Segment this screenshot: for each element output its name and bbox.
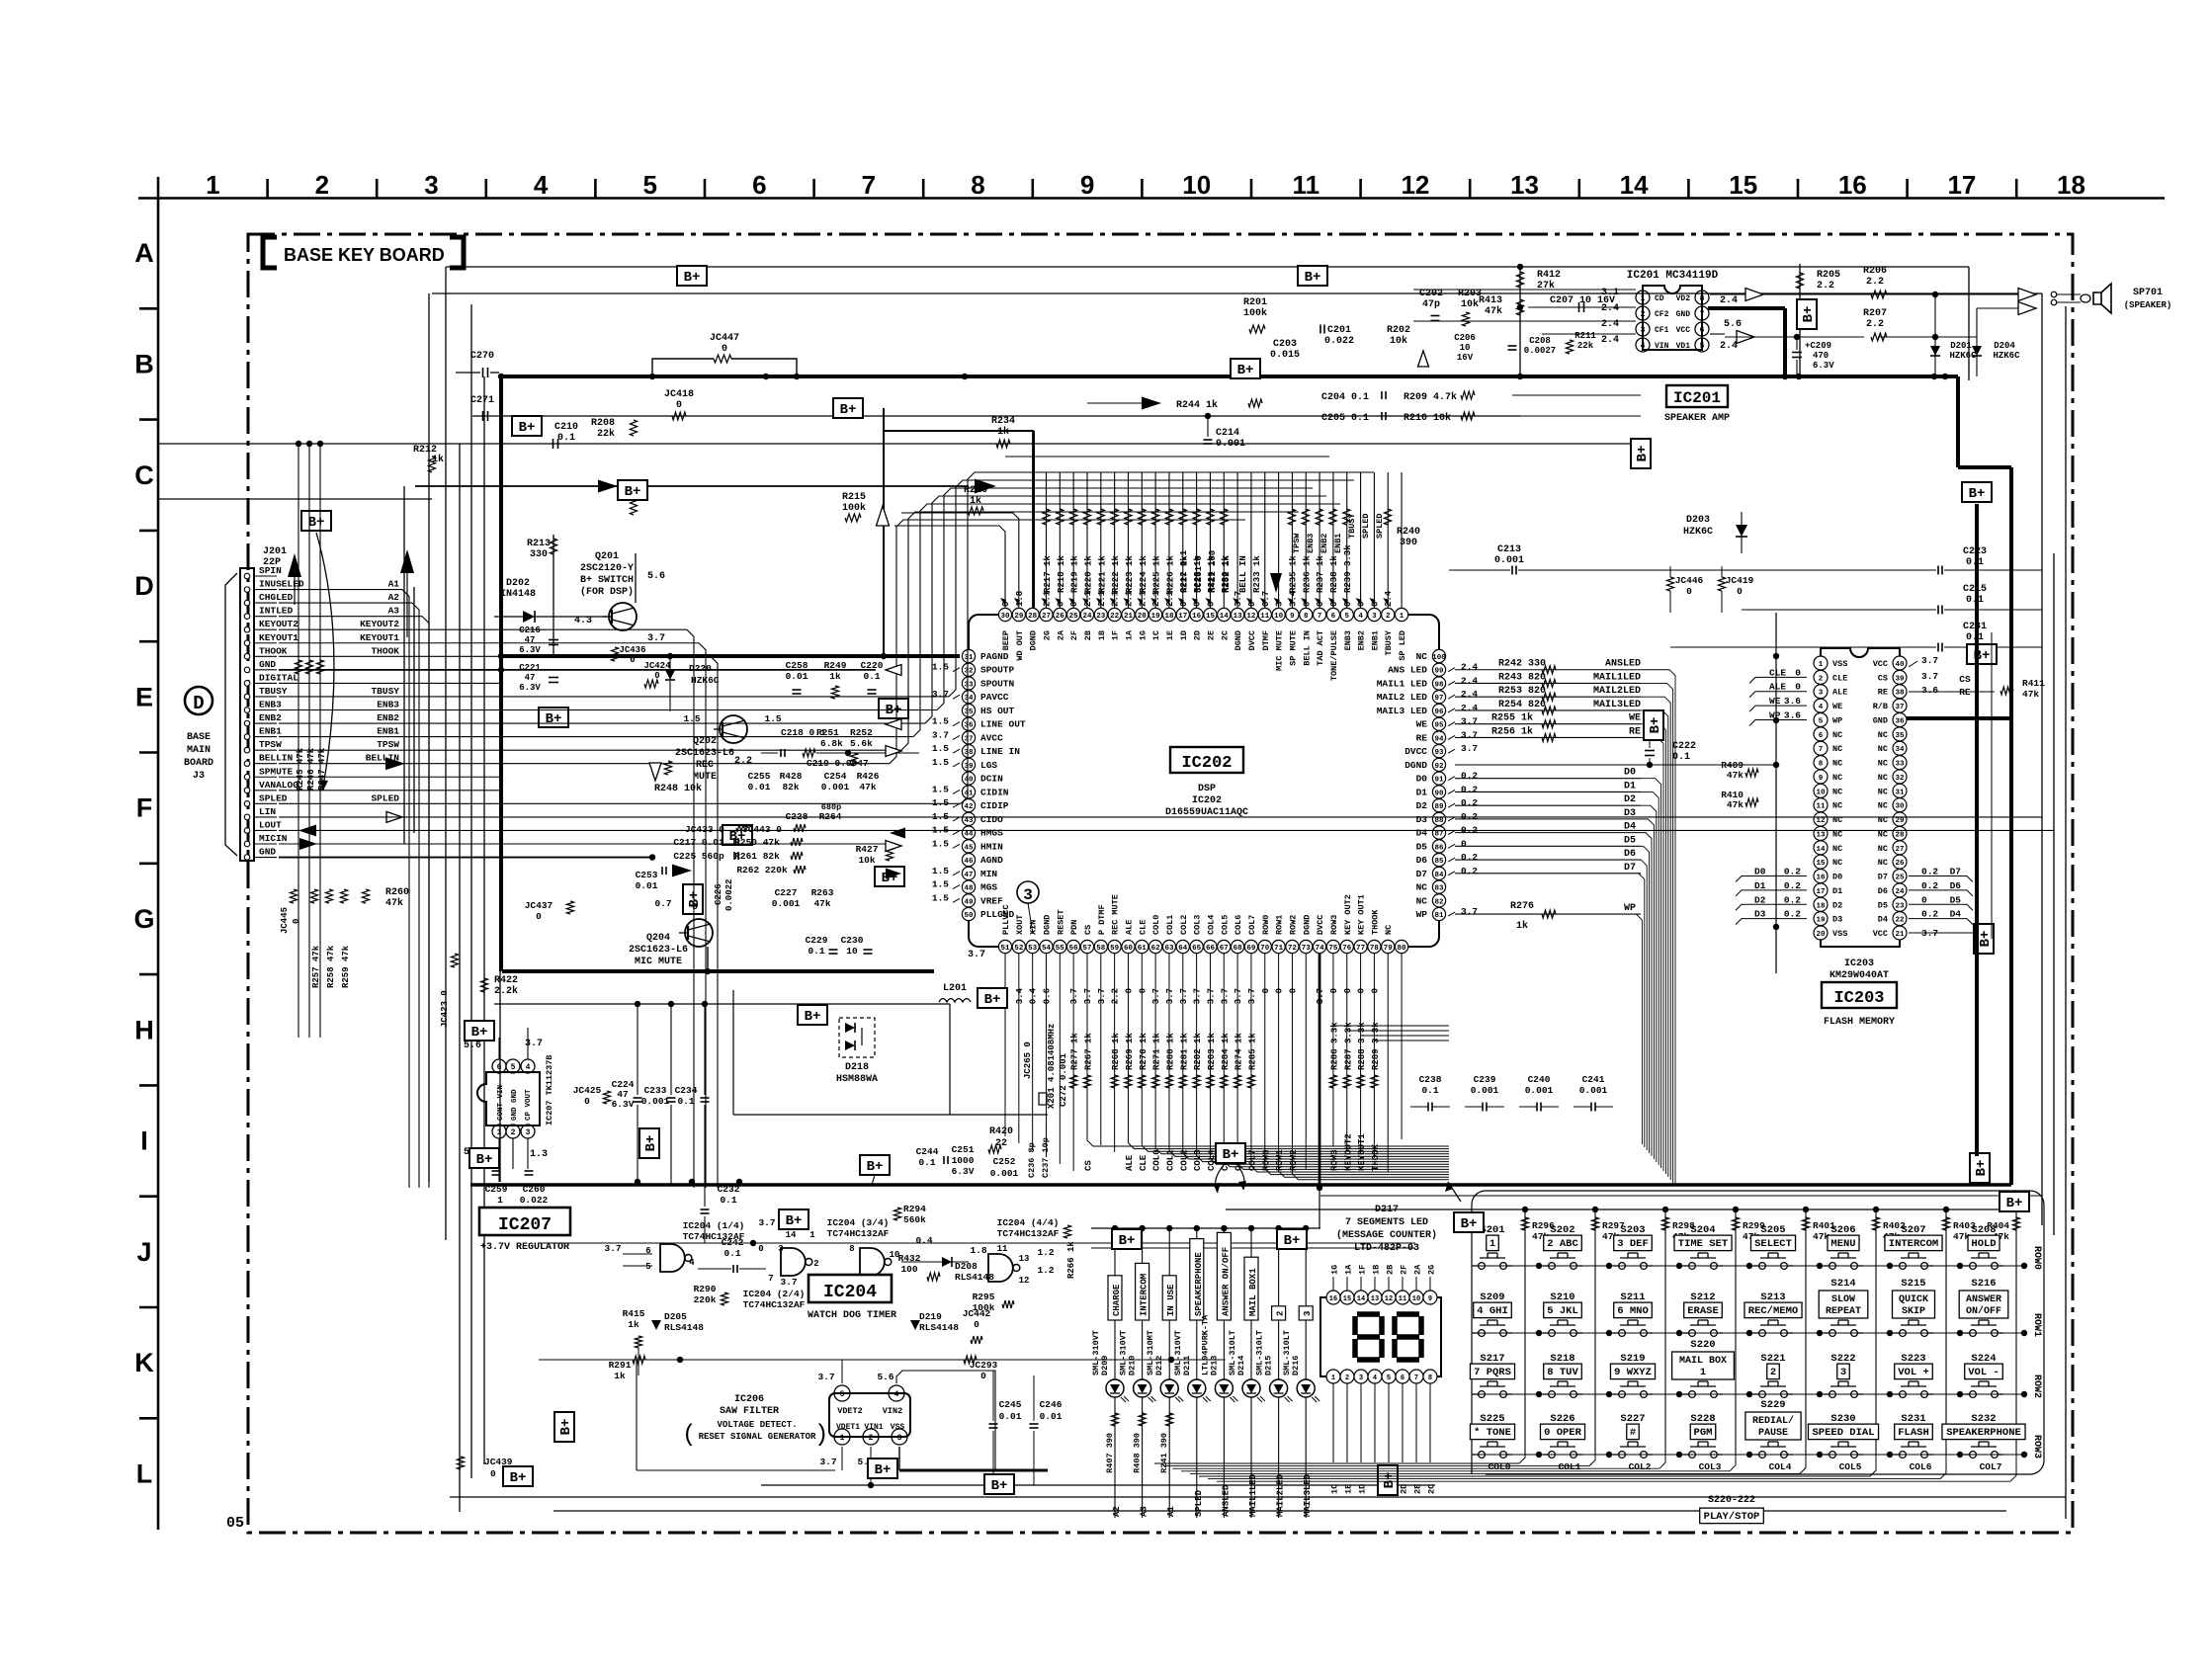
svg-text:C222: C222 [1672,741,1696,752]
svg-text:L201: L201 [943,983,967,994]
svg-text:1: 1 [1489,1238,1495,1250]
svg-text:36: 36 [1895,717,1905,725]
svg-text:KM29W040AT: KM29W040AT [1829,970,1889,981]
svg-text:22k: 22k [1577,341,1594,351]
svg-text:CHGLED: CHGLED [259,592,294,603]
svg-text:0.2: 0.2 [1461,771,1478,782]
svg-text:LOUT: LOUT [259,819,282,830]
svg-text:R421 100: R421 100 [1208,550,1218,593]
svg-text:MIN: MIN [980,869,997,879]
svg-text:VOLTAGE DETECT.: VOLTAGE DETECT. [717,1420,797,1430]
svg-text:38: 38 [1895,690,1905,698]
svg-text:NC: NC [1878,844,1888,854]
svg-text:25: 25 [1069,613,1079,621]
svg-text:3.7: 3.7 [817,1372,834,1382]
svg-text:40: 40 [1895,661,1905,669]
svg-text:96: 96 [1434,708,1444,716]
svg-text:0: 0 [654,671,659,681]
svg-text:15: 15 [1729,170,1757,200]
svg-text:NC: NC [1416,651,1428,662]
svg-text:47p: 47p [1422,299,1440,310]
svg-text:14: 14 [1220,613,1230,621]
svg-text:5.6: 5.6 [877,1372,893,1382]
svg-text:0: 0 [292,919,301,924]
svg-text:66: 66 [1206,945,1216,953]
svg-text:95: 95 [1434,722,1444,730]
svg-text:ENB1: ENB1 [1370,630,1380,650]
svg-text:81: 81 [1434,912,1444,920]
svg-text:1A: 1A [1344,1264,1354,1275]
svg-text:0.1: 0.1 [720,1195,736,1206]
svg-text:51: 51 [1000,945,1010,953]
svg-text:3.7: 3.7 [1069,988,1079,1004]
svg-text:680p: 680p [821,802,841,812]
svg-text:C225 560p: C225 560p [673,851,724,862]
svg-text:C216: C216 [519,625,541,635]
svg-text:C239: C239 [1474,1074,1496,1085]
svg-text:10: 10 [1182,170,1211,200]
svg-text:0.4: 0.4 [1029,987,1039,1004]
svg-text:C255: C255 [748,771,771,782]
svg-text:41: 41 [964,790,974,797]
svg-text:VSS: VSS [1832,659,1847,669]
svg-text:JC445: JC445 [280,907,290,934]
svg-text:VOL -: VOL - [1968,1367,1999,1378]
svg-text:0: 0 [1275,988,1285,993]
svg-text:15: 15 [1343,1295,1351,1303]
svg-text:47: 47 [525,673,536,683]
svg-text:29: 29 [1895,817,1905,825]
svg-text:DGND: DGND [1234,630,1243,650]
svg-text:R258 47k: R258 47k [326,945,336,988]
svg-text:14: 14 [786,1230,797,1240]
svg-text:D208: D208 [955,1261,978,1272]
svg-text:(MESSAGE COUNTER): (MESSAGE COUNTER) [1336,1229,1437,1241]
svg-text:COL4: COL4 [1206,915,1216,935]
svg-text:2 ABC: 2 ABC [1547,1238,1578,1250]
svg-text:PLLGND: PLLGND [980,909,1015,920]
svg-text:2.4: 2.4 [1601,335,1619,346]
svg-text:10: 10 [1816,789,1826,796]
svg-text:C227: C227 [775,887,798,898]
svg-text:C272 0.001: C272 0.001 [1059,1052,1068,1107]
svg-text:1E: 1E [1165,630,1175,640]
svg-text:9: 9 [1290,613,1295,621]
svg-text:39: 39 [1895,675,1905,683]
svg-text:S230: S230 [1830,1413,1855,1425]
svg-text:1: 1 [497,1195,503,1206]
svg-text:COL2: COL2 [1629,1461,1652,1472]
svg-text:THOOK: THOOK [371,645,399,656]
svg-text:R255 1k: R255 1k [1491,712,1533,724]
svg-text:CLE: CLE [1138,920,1148,935]
svg-text:22k: 22k [597,428,615,440]
svg-text:1D: 1D [1358,1484,1368,1494]
svg-text:ROW1: ROW1 [1275,1149,1285,1171]
svg-text:NC: NC [1878,759,1888,769]
svg-text:DTMF: DTMF [1261,630,1271,650]
svg-text:10: 10 [846,946,858,957]
svg-text:2: 2 [813,1259,818,1269]
svg-text:R268 1k: R268 1k [1111,1033,1121,1070]
svg-text:ALE: ALE [1769,682,1786,693]
svg-text:7: 7 [862,170,876,200]
svg-text:ENB2: ENB2 [1357,630,1367,650]
svg-text:2E: 2E [1413,1484,1423,1494]
svg-text:SML-310VT: SML-310VT [1091,1330,1101,1375]
svg-text:ROW0: ROW0 [1261,915,1271,935]
svg-text:GND: GND [1873,715,1888,725]
svg-text:MENU: MENU [1830,1238,1855,1250]
svg-text:C230: C230 [841,935,864,946]
svg-text:CP VOUT: CP VOUT [525,1089,533,1121]
svg-text:1A: 1A [1124,629,1134,640]
svg-text:11: 11 [1260,613,1270,621]
svg-text:47k: 47k [2022,689,2039,700]
svg-text:22: 22 [1895,917,1905,925]
svg-text:VREF: VREF [980,895,1003,906]
svg-text:C212 0.1: C212 0.1 [1179,549,1189,593]
svg-text:6: 6 [1401,1375,1404,1382]
svg-text:ROW3: ROW3 [2031,1435,2042,1459]
svg-text:ENB1: ENB1 [377,726,399,737]
svg-text:HOLD: HOLD [1971,1238,1996,1250]
svg-text:0.4: 0.4 [915,1235,932,1246]
svg-text:17: 17 [1947,170,1976,200]
svg-text:1: 1 [809,1230,815,1240]
svg-text:QUICK: QUICK [1899,1294,1928,1305]
svg-text:72: 72 [1288,945,1298,953]
svg-text:3.7: 3.7 [1247,988,1257,1004]
svg-text:32: 32 [964,668,974,676]
svg-text:ANSWER: ANSWER [1966,1294,2001,1305]
svg-text:0: 0 [1302,602,1312,607]
svg-text:1k: 1k [829,671,841,682]
svg-text:0: 0 [980,1371,986,1381]
svg-text:B+: B+ [625,484,641,500]
svg-text:R239 3.3k: R239 3.3k [1343,544,1353,593]
svg-text:B+: B+ [1969,486,1986,502]
svg-text:SPEAKERPHONE: SPEAKERPHONE [1946,1427,2021,1439]
svg-text:100: 100 [900,1264,917,1275]
svg-text:0: 0 [1357,602,1367,607]
svg-text:IC206: IC206 [734,1394,764,1405]
svg-text:1000: 1000 [952,1155,975,1166]
svg-text:1G: 1G [1330,1265,1340,1275]
svg-text:D215: D215 [1264,1356,1274,1375]
svg-text:0.015: 0.015 [1270,350,1300,361]
svg-text:20: 20 [1138,613,1148,621]
svg-text:NC: NC [1416,882,1428,893]
svg-text:INTERCOM: INTERCOM [1140,1274,1149,1316]
svg-text:SP MUTE: SP MUTE [1288,630,1298,666]
svg-text:REC MUTE: REC MUTE [1111,894,1121,935]
svg-text:TBUSY: TBUSY [1384,629,1394,655]
svg-text:82: 82 [1434,898,1444,906]
svg-text:1F: 1F [1111,630,1121,640]
svg-text:0.022: 0.022 [520,1195,549,1206]
svg-text:S208: S208 [1971,1224,1996,1236]
svg-text:0: 0 [722,344,727,355]
svg-text:THOOK: THOOK [1370,909,1380,935]
svg-text:3: 3 [526,1128,531,1137]
svg-text:C226: C226 [714,883,723,905]
svg-text:NC: NC [1832,844,1842,854]
svg-text:S206: S206 [1830,1224,1855,1236]
svg-text:1: 1 [206,170,219,200]
svg-text:R291: R291 [609,1360,632,1371]
svg-text:6: 6 [1700,326,1705,335]
svg-text:R234: R234 [991,416,1015,427]
svg-text:INTERCOM: INTERCOM [1889,1238,1938,1250]
svg-text:E: E [135,682,153,711]
svg-text:2.2: 2.2 [1866,277,1884,288]
svg-text:2F: 2F [1400,1265,1409,1275]
svg-text:Q201: Q201 [595,551,619,562]
svg-text:0: 0 [1737,586,1743,597]
svg-text:3: 3 [1840,1367,1846,1378]
svg-text:R224 1k: R224 1k [1139,555,1149,593]
svg-text:6.3V: 6.3V [519,683,541,693]
svg-text:PGM: PGM [1694,1427,1713,1439]
svg-text:R271 1k: R271 1k [1152,1033,1162,1070]
svg-text:10k: 10k [1461,298,1479,310]
svg-text:ENB3: ENB3 [1306,534,1316,553]
svg-text:S228: S228 [1690,1413,1715,1425]
svg-text:35: 35 [964,708,974,716]
svg-text:LINE OUT: LINE OUT [980,719,1026,730]
svg-text:R415: R415 [623,1308,645,1319]
svg-text:NC: NC [1832,858,1842,868]
svg-text:D7: D7 [1950,867,1962,877]
svg-text:9: 9 [1819,775,1824,783]
svg-text:5: 5 [1344,613,1349,621]
svg-text:C245: C245 [999,1399,1022,1410]
svg-text:92: 92 [1434,763,1444,771]
svg-text:R269 1k: R269 1k [1125,1033,1135,1070]
svg-text:0: 0 [758,1244,763,1254]
svg-text:2SC2120-Y: 2SC2120-Y [580,563,634,574]
svg-text:13: 13 [1816,831,1826,839]
svg-text:SLOW: SLOW [1831,1294,1855,1305]
svg-text:R211: R211 [1574,331,1596,341]
svg-text:47k: 47k [859,782,876,792]
svg-text:INUSELED: INUSELED [259,579,304,590]
svg-text:21: 21 [1124,613,1134,621]
svg-text:94: 94 [1434,735,1444,743]
svg-text:C251: C251 [952,1144,975,1155]
svg-text:REC/MEMO: REC/MEMO [1748,1305,1798,1317]
svg-text:C234: C234 [675,1085,698,1096]
svg-text:R245 47k: R245 47k [296,747,305,791]
svg-text:0.001: 0.001 [1494,555,1524,566]
svg-text:GND: GND [1676,310,1691,319]
svg-text:JC436: JC436 [619,645,645,655]
svg-text:IC207: IC207 [498,1215,552,1235]
svg-text:D6: D6 [1624,849,1636,860]
svg-text:50: 50 [964,912,974,920]
svg-text:JC433 0: JC433 0 [685,824,724,835]
svg-text:C258: C258 [786,660,808,671]
svg-text:MAIL2 LED: MAIL2 LED [1377,692,1428,703]
svg-text:D4: D4 [1416,828,1428,839]
svg-text:XIN: XIN [1029,920,1039,935]
svg-text:7: 7 [768,1274,773,1284]
svg-text:KEYOUT1: KEYOUT1 [360,632,399,643]
svg-text:S225: S225 [1480,1413,1504,1425]
svg-text:46: 46 [964,858,974,866]
svg-text:2.4: 2.4 [1461,662,1478,673]
svg-text:7: 7 [1414,1375,1418,1382]
svg-text:R294: R294 [903,1204,926,1214]
svg-text:0.0022: 0.0022 [724,879,734,911]
svg-text:3.7: 3.7 [758,1217,775,1228]
svg-text:VDET1: VDET1 [836,1423,860,1432]
svg-text:R213: R213 [527,539,551,549]
svg-text:IC204: IC204 [823,1283,877,1302]
svg-text:ALE: ALE [1832,688,1847,698]
svg-text:DGND: DGND [1404,760,1427,771]
svg-text:0.1: 0.1 [1421,1085,1438,1096]
svg-text:D4: D4 [1950,909,1962,920]
svg-text:VIN: VIN [1655,342,1669,351]
svg-text:0.1: 0.1 [557,433,575,444]
svg-text:VIN1: VIN1 [864,1423,883,1432]
svg-text:13: 13 [1234,613,1243,621]
svg-text:THOOK: THOOK [1371,1143,1381,1171]
svg-text:R289 3.3k: R289 3.3k [1371,1022,1381,1070]
svg-text:63: 63 [1164,945,1174,953]
svg-text:D7: D7 [1416,869,1428,879]
svg-text:CLE: CLE [1832,673,1847,683]
svg-text:8: 8 [1700,294,1705,303]
svg-text:JC265 0: JC265 0 [1023,1042,1033,1079]
svg-text:ALE: ALE [1124,920,1134,935]
svg-text:IC204 (4/4): IC204 (4/4) [997,1217,1060,1228]
svg-text:FLASH MEMORY: FLASH MEMORY [1824,1017,1895,1028]
svg-text:CHARGE: CHARGE [1112,1284,1122,1316]
svg-text:390: 390 [1400,538,1417,548]
svg-text:WE: WE [1769,696,1781,707]
svg-text:TPSW: TPSW [259,739,282,750]
svg-text:C238: C238 [1419,1074,1442,1085]
svg-text:1B: 1B [1097,630,1107,640]
svg-text:R221 1k: R221 1k [1097,555,1107,593]
svg-text:3.7: 3.7 [780,1277,797,1288]
svg-text:52: 52 [1014,945,1024,953]
svg-text:(FOR DSP): (FOR DSP) [580,586,634,598]
svg-text:PAGND: PAGND [980,651,1009,662]
svg-text:0.001: 0.001 [1579,1085,1608,1096]
svg-text:C228: C228 [786,811,808,822]
svg-text:2.4: 2.4 [1461,689,1478,700]
svg-text:COL4: COL4 [1769,1461,1792,1472]
svg-text:97: 97 [1434,695,1443,703]
svg-text:10k: 10k [1390,335,1407,347]
svg-text:IC203: IC203 [1844,959,1874,969]
svg-text:S217: S217 [1480,1353,1504,1365]
svg-text:SKIP: SKIP [1902,1306,1925,1317]
svg-text:100: 100 [1432,654,1446,662]
svg-text:R252: R252 [850,727,873,738]
svg-text:2: 2 [315,170,329,200]
svg-text:B+: B+ [875,1462,892,1478]
svg-text:A3: A3 [388,606,400,617]
svg-text:89: 89 [1434,803,1444,811]
svg-text:73: 73 [1302,945,1312,953]
svg-text:3.7: 3.7 [604,1243,621,1254]
svg-text:R240: R240 [1397,527,1420,538]
svg-text:R210 10k: R210 10k [1404,412,1451,424]
svg-text:ENB3: ENB3 [377,700,399,710]
svg-text:J201: J201 [263,546,287,557]
svg-text:1k: 1k [432,454,444,465]
svg-text:ROW3: ROW3 [1329,1149,1339,1171]
svg-text:3: 3 [1275,602,1285,607]
svg-text:SP701: SP701 [2133,288,2163,298]
svg-text:NC: NC [1384,925,1394,935]
svg-text:LTD-482P-03: LTD-482P-03 [1354,1243,1419,1254]
svg-text:WP: WP [1416,909,1428,920]
svg-text:6: 6 [752,170,766,200]
svg-text:2SC1623-L6: 2SC1623-L6 [675,748,734,759]
svg-text:BELL IN: BELL IN [1238,555,1248,593]
svg-text:10: 10 [1412,1295,1420,1303]
svg-text:6.3V: 6.3V [952,1166,975,1177]
svg-text:2SC1623-L6: 2SC1623-L6 [629,945,688,956]
svg-text:2: 2 [1770,1367,1776,1378]
svg-text:SML-310MT: SML-310MT [1146,1330,1155,1375]
svg-text:90: 90 [1434,790,1444,797]
svg-text:0: 0 [1343,988,1353,993]
svg-text:RE: RE [1629,726,1641,737]
svg-text:RESET: RESET [1056,909,1065,935]
svg-text:D7: D7 [1878,873,1888,882]
svg-text:B+: B+ [840,402,857,418]
svg-text:R257 47k: R257 47k [311,945,321,988]
svg-text:R287 3.3k: R287 3.3k [1343,1022,1353,1070]
svg-text:59: 59 [1110,945,1120,953]
svg-text:MAIL BOX1: MAIL BOX1 [1248,1268,1258,1316]
svg-text:99: 99 [1434,668,1444,676]
svg-text:2.4: 2.4 [1720,341,1738,352]
svg-text:1k: 1k [970,495,981,507]
svg-text:220k: 220k [694,1294,717,1305]
svg-text:RE: RE [1416,732,1428,743]
svg-text:3: 3 [1359,1375,1363,1382]
svg-text:RE: RE [1878,688,1888,698]
svg-text:0: 0 [1329,988,1339,993]
svg-text:3: 3 [1372,613,1377,621]
svg-text:COL3: COL3 [1193,915,1203,935]
svg-text:0 OPER: 0 OPER [1544,1427,1582,1439]
svg-text:4: 4 [1819,704,1824,711]
svg-text:91: 91 [1434,777,1444,785]
svg-text:0.1: 0.1 [863,671,880,682]
svg-text:RESET SIGNAL GENERATOR: RESET SIGNAL GENERATOR [699,1432,816,1442]
svg-text:0: 0 [974,1319,979,1330]
svg-text:2: 2 [1345,1375,1349,1382]
svg-text:COL1: COL1 [1165,1149,1175,1171]
svg-text:SPIN: SPIN [259,565,282,576]
svg-text:R246 47k: R246 47k [306,747,316,791]
svg-text:D212: D212 [1154,1356,1164,1375]
svg-text:15: 15 [1206,613,1216,621]
svg-text:D1: D1 [1754,880,1766,891]
svg-text:R259 47k: R259 47k [341,945,351,988]
svg-text:HSM88WA: HSM88WA [836,1074,878,1085]
svg-text:KEYOUT2: KEYOUT2 [259,619,298,629]
